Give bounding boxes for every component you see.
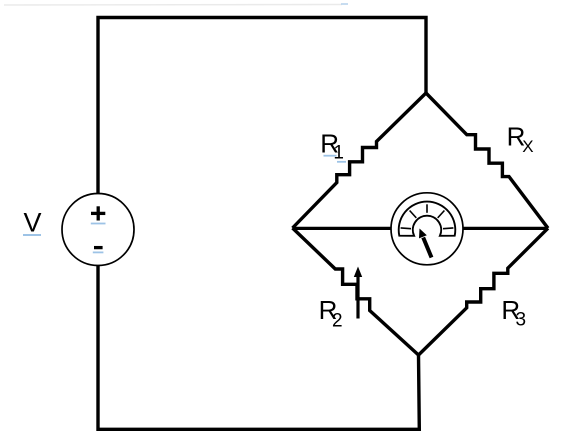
svg-text:3: 3 bbox=[516, 309, 527, 330]
svg-text:1: 1 bbox=[333, 143, 344, 164]
svg-text:X: X bbox=[522, 137, 533, 156]
svg-text:V: V bbox=[24, 208, 42, 238]
svg-text:2: 2 bbox=[332, 310, 343, 331]
